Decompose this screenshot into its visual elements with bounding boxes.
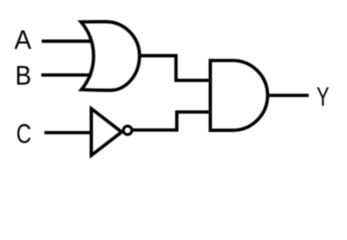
inverter U2 bubble [123, 126, 132, 135]
wire input B [41, 73, 92, 76]
label B [17, 66, 30, 85]
and-gate U3 [210, 61, 267, 131]
label A [14, 30, 31, 49]
label C [17, 124, 30, 143]
inverter U2 triangle (NOT C) [91, 109, 121, 156]
label Y [317, 87, 329, 106]
wire OR output to AND top input [140, 56, 211, 81]
wire input A [42, 40, 93, 43]
wire NOT output to AND bottom input [133, 112, 211, 130]
wire input C [44, 131, 91, 134]
wire output Y [268, 94, 309, 97]
or-gate U1 (A OR B) [81, 22, 140, 91]
